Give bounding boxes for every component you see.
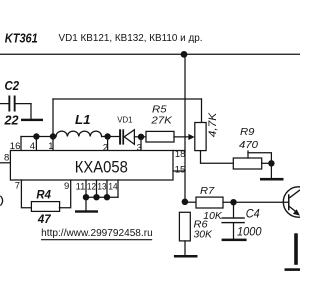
- svg-text:30K: 30K: [194, 229, 213, 241]
- svg-text:R4: R4: [36, 188, 51, 202]
- svg-text:КХА058: КХА058: [75, 159, 128, 177]
- svg-text:13: 13: [97, 182, 106, 193]
- svg-text:VD1: VD1: [117, 114, 132, 124]
- svg-text:7: 7: [15, 181, 20, 192]
- svg-text:L1: L1: [75, 113, 91, 127]
- svg-text:1: 1: [48, 141, 53, 152]
- svg-text:27K: 27K: [150, 114, 173, 126]
- svg-text:11: 11: [76, 182, 86, 193]
- svg-text:22: 22: [3, 114, 18, 128]
- svg-text:2: 2: [103, 142, 108, 153]
- svg-text:9: 9: [64, 181, 69, 192]
- svg-text:8: 8: [4, 153, 9, 164]
- svg-text:R7: R7: [200, 185, 215, 197]
- svg-text:4: 4: [30, 141, 35, 152]
- svg-text:C4: C4: [246, 206, 260, 220]
- svg-text:47: 47: [37, 212, 52, 226]
- svg-text:3: 3: [137, 142, 142, 153]
- svg-text:R9: R9: [240, 126, 255, 138]
- svg-text:16: 16: [10, 141, 21, 152]
- svg-text:12: 12: [87, 182, 96, 193]
- svg-text:18: 18: [175, 149, 186, 160]
- svg-text:VD1 КВ121, КВ132, КВ110 и др.: VD1 КВ121, КВ132, КВ110 и др.: [59, 33, 203, 44]
- svg-text:470: 470: [239, 139, 258, 151]
- svg-text:http://www.299792458.ru: http://www.299792458.ru: [41, 228, 153, 239]
- svg-text:15: 15: [175, 164, 186, 175]
- svg-text:KT361: KT361: [5, 31, 38, 46]
- svg-text:1000: 1000: [237, 225, 262, 238]
- svg-text:C2: C2: [5, 79, 20, 93]
- svg-text:4,7K: 4,7K: [207, 112, 219, 137]
- svg-text:14: 14: [108, 182, 117, 193]
